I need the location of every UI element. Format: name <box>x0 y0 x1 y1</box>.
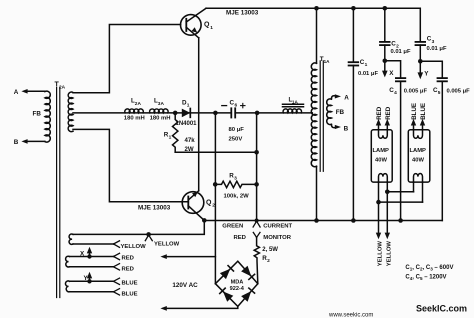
svg-text:MJE 13003: MJE 13003 <box>138 205 171 212</box>
svg-text:X: X <box>389 70 394 77</box>
svg-text:0.01 μF: 0.01 μF <box>427 46 447 52</box>
svg-text:BLUE: BLUE <box>122 281 138 287</box>
svg-text:0.005 μF: 0.005 μF <box>404 88 428 94</box>
svg-text:RED: RED <box>122 256 134 262</box>
svg-text:1A: 1A <box>324 59 331 64</box>
svg-text:YELLOW: YELLOW <box>121 244 147 250</box>
svg-text:RED: RED <box>385 106 392 120</box>
svg-text:0.01 μF: 0.01 μF <box>391 49 411 55</box>
svg-text:LAMP: LAMP <box>373 148 390 154</box>
svg-text:FB: FB <box>33 111 42 118</box>
svg-text:A: A <box>344 95 349 102</box>
svg-text:1: 1 <box>365 62 368 68</box>
svg-text:5: 5 <box>438 90 441 96</box>
svg-text:YELLOW: YELLOW <box>378 241 384 267</box>
svg-text:180 mH: 180 mH <box>124 115 145 121</box>
svg-text:2A: 2A <box>59 85 66 91</box>
svg-text:B: B <box>344 126 349 133</box>
svg-text:C4, C5 – 1200V: C4, C5 – 1200V <box>405 274 446 281</box>
svg-text:FB: FB <box>336 109 345 116</box>
svg-text:YELLOW: YELLOW <box>154 241 180 247</box>
svg-text:BLUE: BLUE <box>411 103 418 120</box>
svg-text:MDA: MDA <box>231 280 244 286</box>
svg-text:1N4001: 1N4001 <box>176 121 198 127</box>
svg-text:SeekIC.com: SeekIC.com <box>416 304 467 314</box>
svg-text:GREEN: GREEN <box>222 223 243 229</box>
svg-text:RED: RED <box>376 106 383 120</box>
svg-text:RED: RED <box>234 235 246 241</box>
svg-text:1: 1 <box>187 102 190 108</box>
svg-text:MONITOR: MONITOR <box>263 235 291 241</box>
svg-text:2, 5W: 2, 5W <box>262 247 278 253</box>
svg-text:6: 6 <box>235 102 238 108</box>
svg-text:2A: 2A <box>135 101 142 107</box>
svg-text:CURRENT: CURRENT <box>263 223 292 229</box>
svg-text:1: 1 <box>169 134 172 140</box>
svg-text:RED: RED <box>122 266 134 272</box>
svg-text:80 μF: 80 μF <box>229 127 245 133</box>
svg-text:2: 2 <box>267 258 270 264</box>
svg-text:A: A <box>14 89 19 96</box>
svg-text:40W: 40W <box>375 157 387 163</box>
svg-text:BLUE: BLUE <box>420 103 427 120</box>
svg-text:2W: 2W <box>185 146 194 153</box>
svg-text:1A: 1A <box>292 99 299 104</box>
svg-text:Q: Q <box>206 199 212 206</box>
svg-text:Q: Q <box>204 22 210 29</box>
svg-text:922-4: 922-4 <box>230 286 245 292</box>
svg-text:180 mH: 180 mH <box>150 115 171 121</box>
svg-text:3A: 3A <box>158 101 165 107</box>
svg-text:0.005 μF: 0.005 μF <box>447 88 471 94</box>
svg-text:100k, 2W: 100k, 2W <box>224 193 250 199</box>
svg-text:4: 4 <box>394 90 397 96</box>
svg-text:BLUE: BLUE <box>122 291 138 297</box>
svg-text:3: 3 <box>432 39 435 45</box>
svg-text:0.01 μF: 0.01 μF <box>358 71 378 77</box>
svg-text:1: 1 <box>210 25 213 31</box>
svg-text:www.seekic.com: www.seekic.com <box>328 313 373 318</box>
svg-text:LAMP: LAMP <box>410 148 427 154</box>
svg-text:Y: Y <box>424 71 429 78</box>
svg-text:2: 2 <box>212 203 215 209</box>
svg-text:C1, C2, C3 – 600V: C1, C2, C3 – 600V <box>405 265 453 272</box>
svg-text:47k: 47k <box>185 137 196 144</box>
svg-text:120V AC: 120V AC <box>172 282 198 289</box>
svg-text:40W: 40W <box>412 157 424 163</box>
svg-text:YELLOW: YELLOW <box>386 241 392 267</box>
svg-text:250V: 250V <box>229 137 243 143</box>
svg-text:B: B <box>14 139 19 146</box>
svg-text:3: 3 <box>234 175 237 181</box>
svg-text:MJE 13003: MJE 13003 <box>226 10 259 17</box>
